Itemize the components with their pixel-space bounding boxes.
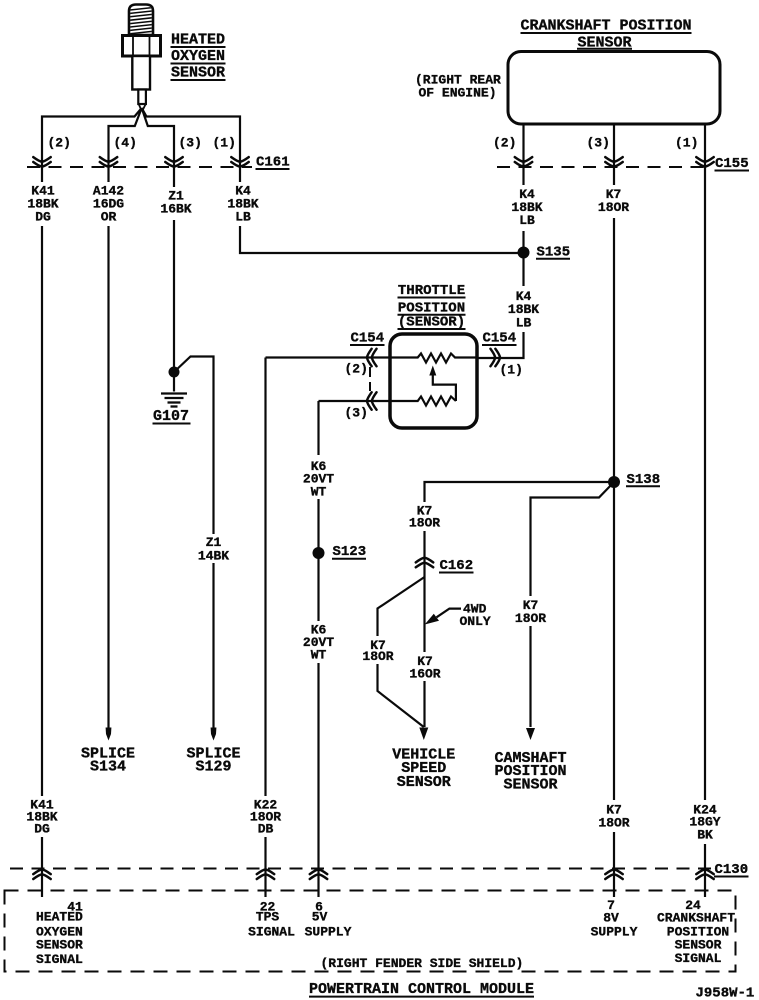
svg-text:OF ENGINE): OF ENGINE) <box>419 86 497 101</box>
svg-text:18OR: 18OR <box>598 200 629 215</box>
svg-text:18OR: 18OR <box>409 515 440 530</box>
svg-text:HEATED: HEATED <box>36 910 83 925</box>
svg-text:16OR: 16OR <box>409 667 440 682</box>
svg-text:(4): (4) <box>114 136 137 151</box>
svg-text:SIGNAL: SIGNAL <box>675 951 722 966</box>
svg-text:SIGNAL: SIGNAL <box>36 952 83 967</box>
svg-text:(3): (3) <box>345 406 368 421</box>
svg-text:SENSOR: SENSOR <box>36 938 83 953</box>
svg-text:BK: BK <box>697 827 713 842</box>
svg-text:(1): (1) <box>675 136 698 151</box>
svg-text:SIGNAL: SIGNAL <box>248 924 295 939</box>
svg-text:G107: G107 <box>153 408 189 425</box>
svg-text:DG: DG <box>35 210 51 225</box>
svg-text:18OR: 18OR <box>598 816 629 831</box>
svg-text:SENSOR: SENSOR <box>503 777 557 794</box>
svg-text:WT: WT <box>311 484 327 499</box>
svg-text:5V: 5V <box>312 910 328 925</box>
svg-text:TPS: TPS <box>256 910 280 925</box>
svg-text:(3): (3) <box>179 136 202 151</box>
svg-text:CRANKSHAFT: CRANKSHAFT <box>657 911 735 926</box>
svg-text:LB: LB <box>516 315 532 330</box>
svg-text:SUPPLY: SUPPLY <box>305 924 352 939</box>
svg-text:(1): (1) <box>500 363 523 378</box>
svg-text:CRANKSHAFT POSITION: CRANKSHAFT POSITION <box>520 18 691 35</box>
svg-text:S129: S129 <box>195 758 231 775</box>
svg-text:(3): (3) <box>587 136 610 151</box>
svg-text:(2): (2) <box>493 136 516 151</box>
svg-text:SENSOR: SENSOR <box>171 64 225 81</box>
svg-text:16BK: 16BK <box>160 202 191 217</box>
svg-text:(2): (2) <box>48 136 71 151</box>
svg-text:8V: 8V <box>603 911 619 926</box>
svg-text:DG: DG <box>34 822 50 837</box>
svg-text:(RIGHT FENDER SIDE SHIELD): (RIGHT FENDER SIDE SHIELD) <box>321 956 524 971</box>
svg-text:DB: DB <box>258 822 274 837</box>
svg-text:18OR: 18OR <box>515 611 546 626</box>
svg-text:LB: LB <box>235 210 251 225</box>
svg-text:(1): (1) <box>213 136 236 151</box>
svg-text:SUPPLY: SUPPLY <box>591 925 638 940</box>
svg-text:SENSOR: SENSOR <box>397 774 451 791</box>
svg-text:POWERTRAIN CONTROL MODULE: POWERTRAIN CONTROL MODULE <box>309 981 534 998</box>
svg-text:WT: WT <box>311 648 327 663</box>
svg-text:(2): (2) <box>345 362 368 377</box>
svg-text:14BK: 14BK <box>198 548 229 563</box>
svg-text:OXYGEN: OXYGEN <box>171 48 225 65</box>
svg-text:LB: LB <box>519 213 535 228</box>
svg-text:HEATED: HEATED <box>171 31 225 48</box>
svg-text:J958W-1: J958W-1 <box>696 986 755 1000</box>
svg-text:OR: OR <box>101 210 117 225</box>
svg-text:S134: S134 <box>90 758 126 775</box>
svg-text:ONLY: ONLY <box>460 614 491 629</box>
svg-text:18OR: 18OR <box>362 649 393 664</box>
